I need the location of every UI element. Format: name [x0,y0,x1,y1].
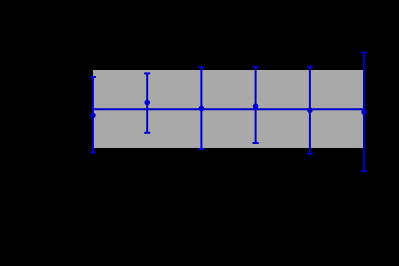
center line [93,108,363,110]
gray band [93,70,363,148]
error bar 6 [361,53,367,172]
error bar 1 [90,77,96,153]
error bar 3 [198,67,204,149]
error bar 5 [307,67,313,154]
error bar 4 [253,67,259,143]
error bar 2 [144,73,150,132]
